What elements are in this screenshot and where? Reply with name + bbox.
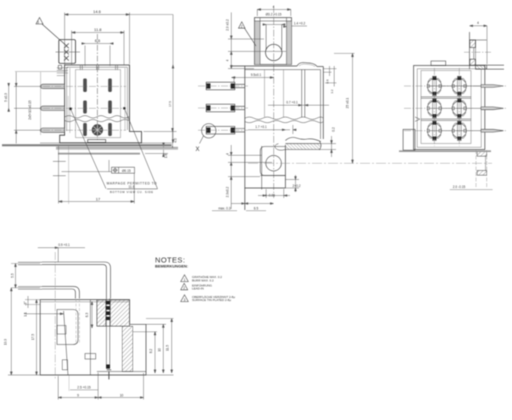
pcb lines — [56, 148, 178, 150]
dim 5.5 left V4 — [11, 264, 40, 288]
leader A triangle callout — [36, 18, 65, 45]
svg-text:6.3: 6.3 — [85, 313, 89, 318]
housing inner outline V1 — [67, 67, 128, 131]
left wall V2 — [244, 66, 246, 210]
latch mark V3 — [415, 117, 420, 121]
svg-text:9: 9 — [77, 393, 79, 397]
svg-text:BOTTOM VIEW CU. SIDE: BOTTOM VIEW CU. SIDE — [110, 190, 153, 194]
gray band under base — [58, 153, 140, 155]
svg-text:14.6: 14.6 — [93, 9, 102, 14]
svg-text:17.5: 17.5 — [168, 101, 172, 107]
svg-text:17: 17 — [96, 196, 101, 201]
svg-text:max. 0.3: max. 0.3 — [218, 207, 230, 211]
center line V4 — [54, 252, 56, 380]
housing V4 — [40, 300, 146, 375]
X marks in tab — [64, 43, 69, 60]
leader line right — [124, 108, 157, 188]
housing cavity rect V1 — [76, 70, 121, 138]
svg-text:-3°: -3° — [24, 301, 28, 306]
svg-text:2+0.2: 2+0.2 — [292, 184, 300, 188]
svg-text:2: 2 — [183, 286, 185, 290]
center line pin row 2 — [43, 107, 126, 109]
dim 10 bottom V4 — [98, 373, 143, 400]
detail circle X — [202, 124, 216, 138]
dim 27 overall V2 right — [334, 53, 355, 163]
left ear V3 — [403, 129, 415, 150]
dim 0.8 V2 right — [323, 66, 336, 76]
shelf lines V3 — [421, 96, 471, 98]
dim 17 bottom — [59, 146, 135, 204]
slots 2 cols x 3 rows V1 — [83, 79, 112, 137]
svg-text:6.5: 6.5 — [254, 207, 259, 211]
left dims V2 top — [228, 12, 286, 68]
pin R3 V3 — [481, 129, 504, 132]
top tab V1 — [59, 40, 76, 64]
row center lines V3 — [404, 68, 506, 146]
bottom bar V1 — [88, 140, 106, 143]
projection lines below V3 — [476, 150, 487, 188]
svg-text:0.2: 0.2 — [332, 127, 336, 132]
dim 6.3 V4 — [91, 302, 93, 328]
pin P1 V1 — [40, 84, 64, 132]
dim 14.6 — [65, 13, 130, 66]
contact link lines V3 — [428, 86, 481, 131]
bottom foot V2 — [245, 144, 286, 190]
body top edges V2 — [232, 65, 297, 67]
svg-text:1.6: 1.6 — [164, 154, 168, 159]
center cross V3 bottom — [485, 156, 487, 171]
svg-text:X: X — [195, 147, 199, 153]
dim 0.2 V2 — [320, 136, 337, 157]
datum ticks left — [53, 146, 69, 204]
dim 6.6 — [82, 43, 113, 66]
internal step lines V4 — [97, 325, 130, 327]
svg-text:5.5: 5.5 — [11, 273, 15, 278]
baseline V4 — [8, 374, 174, 376]
left dims V2 bottom — [228, 145, 272, 209]
svg-text:3.2: 3.2 — [330, 89, 334, 94]
svg-text:2.9 ±0.2: 2.9 ±0.2 — [226, 19, 230, 31]
pin R1 V3 — [481, 85, 504, 132]
pin P2 V2 — [206, 104, 245, 112]
dim 3.2 V2 right — [325, 66, 337, 87]
below-body hatch blocks V3 — [477, 151, 487, 175]
note triangle 2 callout V2 — [239, 22, 257, 46]
svg-text:11.6: 11.6 — [129, 185, 135, 189]
dim 4 top V3 — [470, 25, 488, 64]
svg-text:BURR MAX. 0.2: BURR MAX. 0.2 — [192, 278, 214, 282]
svg-text:3: 3 — [184, 298, 186, 302]
wire W1 beads — [106, 301, 110, 369]
svg-text:1: 1 — [184, 278, 186, 282]
svg-text:5 ±0.3: 5 ±0.3 — [4, 93, 8, 102]
dim 17.5 V4 — [36, 300, 38, 375]
dim 4 top V2 — [257, 9, 291, 17]
note triangle 1 — [181, 275, 189, 282]
top tab V3 — [431, 61, 446, 66]
svg-text:11.5: 11.5 — [165, 345, 169, 351]
svg-text:1.7 +0.1: 1.7 +0.1 — [255, 125, 267, 129]
right block top line V4 — [130, 323, 166, 325]
wire W1 — [18, 262, 111, 299]
dim pitch left 2x5=10 — [14, 72, 42, 144]
wall lines V1 — [69, 68, 71, 133]
svg-text:8.2: 8.2 — [149, 349, 153, 354]
wire W2 — [18, 286, 79, 298]
dim 17.5 right side V1 — [130, 15, 175, 143]
contacts grid V3 — [427, 76, 466, 140]
svg-text:Ø3.2 +0.15: Ø3.2 +0.15 — [266, 13, 282, 17]
note triangle 3 — [181, 295, 189, 302]
svg-text:4: 4 — [273, 5, 275, 9]
svg-text:1.1: 1.1 — [24, 312, 28, 317]
top fitting V3 — [470, 32, 505, 69]
leader line left — [71, 109, 106, 189]
housing outline V1 — [60, 65, 142, 143]
wavy break line V1 — [65, 116, 129, 122]
pin P2 V1 — [40, 106, 64, 110]
svg-text:4: 4 — [226, 153, 230, 155]
feature control frame — [62, 160, 135, 173]
svg-text:LEAD-IN: LEAD-IN — [192, 287, 204, 291]
center line top fitting — [464, 51, 492, 53]
svg-text:0.9 +0.1: 0.9 +0.1 — [58, 243, 70, 247]
slot walls top block — [265, 25, 267, 51]
pcb band under V3 — [399, 150, 491, 152]
dim 11.8 — [72, 31, 124, 65]
svg-text:2: 2 — [241, 24, 243, 28]
svg-text:2.9±0.2: 2.9±0.2 — [226, 186, 230, 197]
svg-text:11.8: 11.8 — [94, 27, 102, 32]
svg-text:17.5: 17.5 — [31, 334, 35, 340]
svg-text:SURFACE TIN PLATED 2-8µ: SURFACE TIN PLATED 2-8µ — [192, 298, 231, 302]
svg-text:3: 3 — [37, 20, 39, 24]
dim 19.9 left V4 — [10, 288, 12, 375]
internal terminal outline V4 — [57, 310, 78, 345]
pin tip extension line V1 — [40, 72, 42, 135]
svg-text:25 ±0.1: 25 ±0.1 — [345, 97, 349, 108]
dim max 0.3 / 6.5 bottom — [231, 203, 273, 205]
pin P3 V1 — [40, 128, 64, 132]
ext line cavity top V1 — [15, 71, 66, 73]
pin R2 V3 — [481, 107, 504, 110]
small protrusion V4 — [85, 354, 96, 360]
wire W1 vertical into housing — [106, 299, 111, 380]
note triangle 2 — [181, 283, 188, 290]
svg-text:9.5±0.1: 9.5±0.1 — [251, 73, 262, 77]
flange with hatch V2 — [285, 137, 321, 150]
svg-text:2x5=10 ±0.15: 2x5=10 ±0.15 — [28, 100, 32, 120]
pin P3 V2 — [206, 126, 245, 134]
cavity wall V2 — [304, 70, 306, 117]
inner cavity walls V2 — [264, 70, 266, 117]
pin P1 V2 — [206, 82, 245, 90]
svg-text:10: 10 — [120, 393, 124, 397]
dim 2 +0.2 V2 — [285, 175, 299, 192]
splined hole V1 — [92, 125, 103, 136]
leader dots V1 — [69, 108, 71, 110]
body V2 — [232, 63, 323, 211]
right wall V2 — [322, 67, 324, 140]
svg-text:Ø0.15: Ø0.15 — [122, 169, 131, 173]
center line pin row 1 — [43, 85, 126, 87]
base line long — [2, 144, 172, 146]
wire W2 dashes inside — [76, 299, 79, 344]
dim 4 -0.05 V2 — [258, 189, 290, 198]
hole circle V2 — [266, 44, 282, 60]
top block outline V2 — [255, 18, 292, 65]
svg-text:2.5 +0.15: 2.5 +0.15 — [77, 386, 91, 390]
top wall slot ticks V1 — [80, 65, 117, 70]
dim 5 +-0.3 far left — [8, 83, 10, 111]
svg-text:1.4 +0.2: 1.4 +0.2 — [294, 22, 306, 26]
svg-text:4: 4 — [226, 59, 230, 61]
wavy break V2 — [245, 117, 323, 123]
body V3 — [403, 61, 485, 150]
svg-text:4 -0.05: 4 -0.05 — [265, 194, 275, 198]
center line V2 vertical — [273, 6, 275, 198]
svg-text:4: 4 — [477, 21, 479, 25]
svg-text:6.6: 6.6 — [95, 38, 101, 43]
center line pin row 3 — [43, 129, 126, 131]
svg-text:10: 10 — [158, 348, 162, 352]
dims right V4: 8.2 / 10 / 11.5 — [154, 319, 173, 374]
svg-text:0.7 +0.1: 0.7 +0.1 — [286, 100, 298, 104]
dim 4.0 right — [144, 128, 177, 149]
svg-text:19.9: 19.9 — [4, 339, 8, 345]
pin center lines V2 — [198, 86, 248, 130]
latch bump V2 — [297, 63, 317, 67]
hatch regions V4 — [97, 300, 133, 372]
left wall rib lines V1 — [57, 68, 68, 76]
svg-text:BEMERKUNGEN:: BEMERKUNGEN: — [155, 264, 188, 269]
dim 1.6 right — [145, 143, 168, 157]
dim 1.1 left V4 — [25, 296, 40, 308]
dim 9 bottom V4 — [58, 373, 98, 400]
svg-text:2.0 -0.15: 2.0 -0.15 — [453, 185, 466, 189]
shared datum line to view3 — [248, 162, 492, 164]
center line vertical V1 — [96, 34, 98, 141]
svg-text:4.0: 4.0 — [174, 138, 178, 143]
